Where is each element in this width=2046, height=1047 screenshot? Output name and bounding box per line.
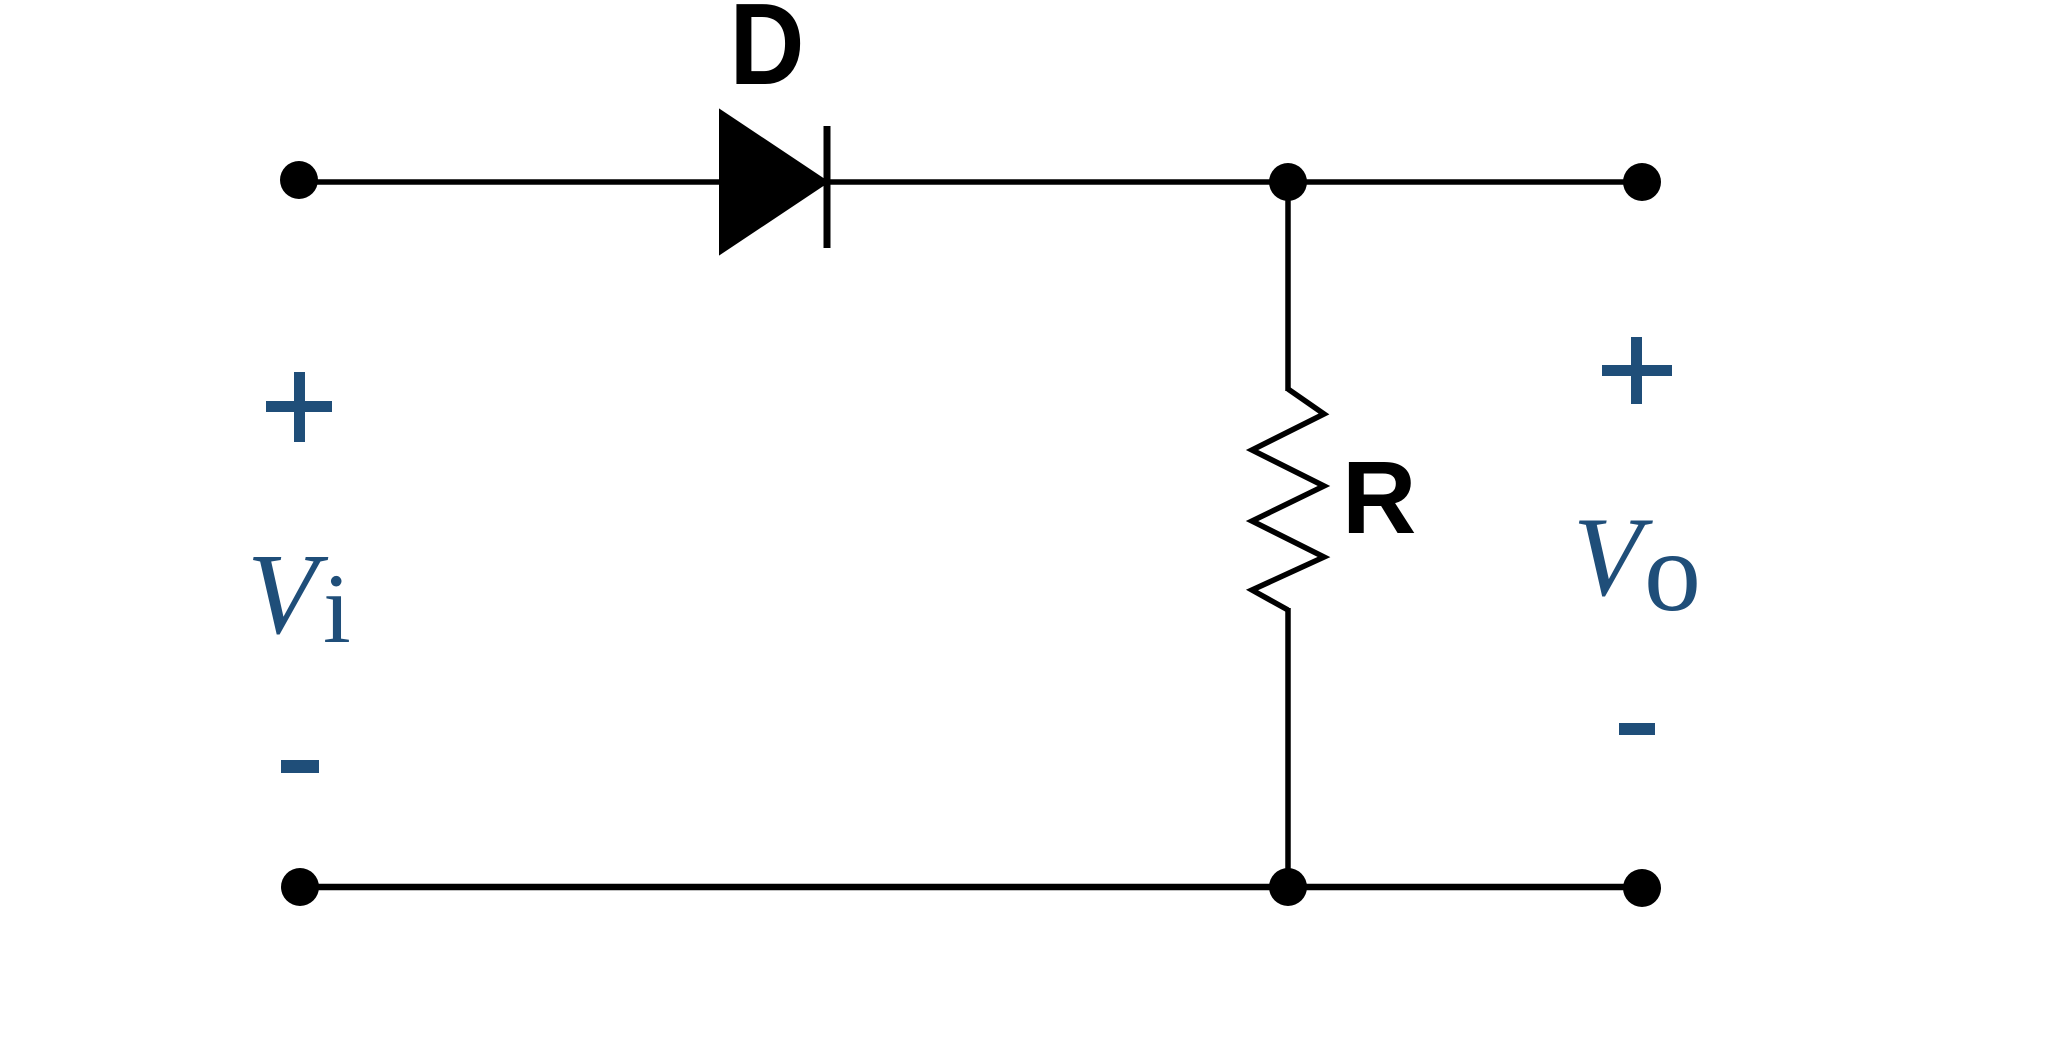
label: input minus sign: [281, 760, 319, 773]
resistor R zigzag: [1252, 389, 1324, 610]
node: top junction: [1269, 163, 1307, 201]
label: input plus sign: [266, 372, 332, 442]
wire: resistor bottom to bottom junction: [1285, 608, 1291, 887]
svg-text:o: o: [1644, 508, 1701, 635]
svg-text:R: R: [1342, 440, 1416, 555]
terminal node: input top: [280, 161, 318, 199]
wire: top rail, input terminal to diode anode: [300, 179, 725, 185]
svg-text:V: V: [1573, 495, 1653, 620]
node: bottom junction: [1269, 868, 1307, 906]
label: output plus sign: [1602, 337, 1672, 404]
wire: top junction to output terminal: [1288, 179, 1642, 185]
terminal node: input bottom: [281, 868, 319, 906]
wire: junction down to resistor top: [1285, 182, 1291, 391]
svg-text:D: D: [730, 0, 805, 109]
svg-text:i: i: [323, 553, 351, 664]
label: output minus sign: [1619, 723, 1655, 735]
terminal node: output bottom: [1623, 869, 1661, 907]
wire: bottom rail: [300, 884, 1642, 891]
wire: diode cathode to top junction: [824, 179, 1288, 185]
svg-text:V: V: [247, 531, 329, 658]
diode D (triangle anode): [722, 114, 824, 250]
terminal node: output top: [1623, 163, 1661, 201]
diode D cathode bar: [824, 126, 831, 248]
